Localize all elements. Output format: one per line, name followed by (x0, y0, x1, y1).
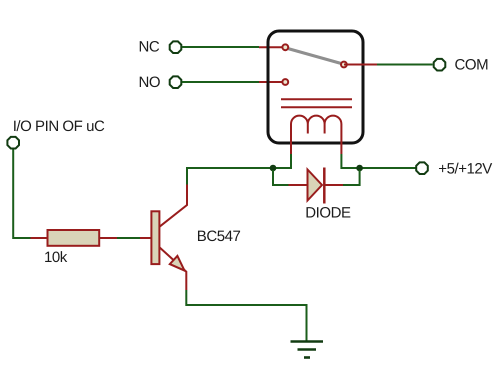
transistor Q1 BC547 body bar (151, 211, 159, 264)
junction node diode cathode / +V (356, 165, 363, 172)
transistor Q1 base pin (140, 237, 151, 239)
terminal +5/+12V (416, 162, 428, 174)
relay contact NO (282, 79, 288, 85)
resistor R1 pin left (31, 237, 48, 239)
wire emitter to ground (186, 290, 306, 341)
ground symbol (291, 342, 324, 358)
transistor Q1 emitter arrow (170, 256, 185, 271)
svg-text:COM: COM (455, 57, 489, 74)
svg-text:BC547: BC547 (197, 228, 241, 245)
diode D1 anode pin (289, 184, 308, 186)
wire rail right to power terminal (342, 167, 416, 169)
svg-text:I/O PIN OF uC: I/O PIN OF uC (13, 118, 105, 135)
wire diode anode branch (273, 170, 289, 185)
wire relay COM to terminal (377, 64, 433, 66)
resistor R1 pin right (99, 237, 117, 239)
wire NO terminal to relay (182, 81, 259, 83)
junction node collector/diode anode (270, 165, 277, 172)
wire coil left leg to rail (290, 154, 292, 169)
svg-text:10k: 10k (44, 249, 68, 266)
relay switch arm (286, 48, 343, 64)
terminal NC (170, 41, 182, 53)
relay core line 2 (281, 106, 352, 108)
wire diode cathode branch (343, 170, 360, 185)
diode D1 cathode pin (324, 184, 343, 186)
svg-text:NO: NO (139, 74, 161, 91)
relay COM pin stub (344, 64, 377, 66)
wire resistor to transistor base (117, 237, 140, 239)
wire coil right leg to rail (340, 154, 342, 169)
svg-text:DIODE: DIODE (305, 205, 351, 222)
relay core line 1 (281, 98, 352, 100)
relay NO pin stub (259, 81, 283, 83)
terminal I/O pin of uC (7, 137, 19, 149)
relay coil loops (291, 116, 341, 154)
wire collector to +V rail (187, 168, 292, 185)
terminal NO (170, 76, 182, 88)
relay contact NC (282, 44, 288, 50)
transistor Q1 emitter lead (159, 247, 186, 290)
relay contact COM (341, 62, 347, 68)
svg-text:+5/+12V: +5/+12V (438, 161, 492, 178)
diode D1 triangle (308, 170, 323, 201)
resistor R1 body (48, 230, 100, 246)
terminal COM (434, 59, 446, 71)
wire from I/O terminal down and right to resistor (13, 150, 30, 239)
relay RL1 outline box (268, 31, 363, 143)
diode D1 cathode bar (323, 168, 326, 204)
wire NC terminal to relay (182, 46, 259, 48)
transistor Q1 collector lead (159, 185, 187, 227)
svg-text:NC: NC (139, 39, 160, 56)
relay NC pin stub (259, 46, 283, 48)
